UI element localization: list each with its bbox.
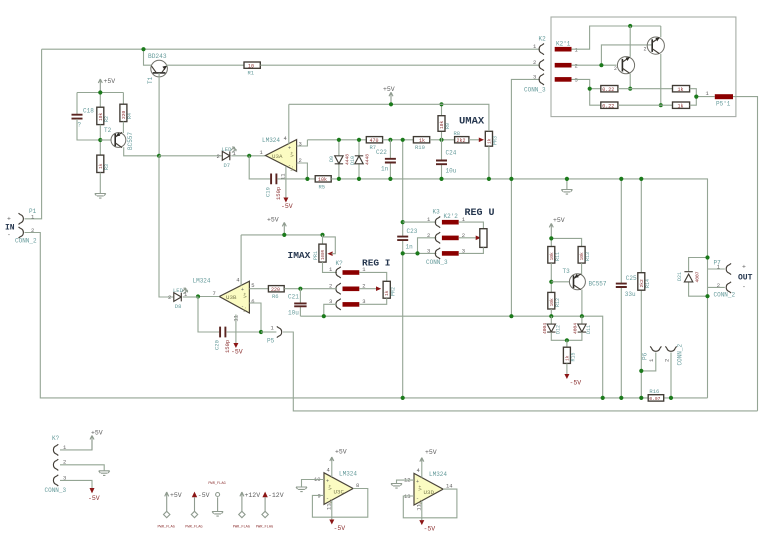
resistor 1k lower bbox=[673, 102, 690, 109]
wire contact2 to bases bbox=[572, 45, 652, 65]
svg-text:PR3: PR3 bbox=[493, 136, 499, 145]
wire R1 to K2 pin2 bbox=[260, 64, 540, 66]
junction dot T3 base node bbox=[549, 280, 553, 284]
svg-text:V-: V- bbox=[290, 166, 296, 171]
wire R6 to K? pin2 bbox=[284, 288, 337, 290]
svg-text:D12: D12 bbox=[556, 325, 562, 334]
svg-text:PR2: PR2 bbox=[390, 287, 396, 296]
svg-text:150p: 150p bbox=[224, 340, 231, 353]
svg-text:1k: 1k bbox=[384, 290, 390, 296]
power -5V (U3A) bbox=[281, 198, 293, 211]
svg-text:BD243: BD243 bbox=[148, 53, 167, 60]
wire pin6 node to P5 bbox=[261, 331, 276, 333]
svg-text:K2'1: K2'1 bbox=[556, 40, 571, 47]
svg-text:R11: R11 bbox=[555, 252, 561, 261]
resistor R8 bbox=[454, 130, 469, 144]
wire P5 to bottom line B bbox=[283, 332, 758, 411]
wire U3A pin2 to feedback rail bbox=[297, 163, 308, 179]
transistor T2 BC557 bbox=[111, 122, 159, 156]
svg-text:0.22: 0.22 bbox=[602, 103, 614, 109]
svg-text:LED: LED bbox=[173, 287, 184, 294]
junction dot +5V arrow (IMAX) bbox=[282, 233, 286, 237]
LED D7 bbox=[217, 146, 237, 169]
wire U3B pin11 to -5V bbox=[235, 315, 237, 344]
svg-text:+5V: +5V bbox=[104, 78, 116, 85]
power -5V (U3D) bbox=[419, 520, 435, 533]
junction dot +5V T3 bbox=[549, 236, 553, 240]
svg-text:-5V: -5V bbox=[570, 380, 582, 387]
wire U3B feedback down through C20 bbox=[198, 297, 219, 333]
svg-text:2: 2 bbox=[575, 63, 578, 70]
svg-text:+5V: +5V bbox=[553, 217, 565, 224]
svg-text:D7: D7 bbox=[224, 162, 231, 169]
transistor Q2 (relay box upper) bbox=[644, 26, 665, 105]
connector P7 pin1 bbox=[726, 263, 731, 274]
capacitor C25 bbox=[616, 275, 637, 298]
svg-text:P5'1: P5'1 bbox=[716, 101, 731, 108]
resistor R16 (on line A) bbox=[648, 388, 664, 402]
resistor R2 bbox=[97, 107, 110, 124]
wire shunts to 1k resistors bbox=[618, 89, 673, 106]
connector K2 pin1 bbox=[539, 44, 544, 55]
wire C25 vertical bbox=[620, 179, 622, 398]
wire R12 bottom to rail bbox=[550, 309, 552, 316]
diode D21 bbox=[677, 258, 707, 297]
wire C19 to R5 bbox=[277, 178, 315, 180]
svg-text:PR1: PR1 bbox=[313, 251, 319, 260]
junction dot top rail / T1 bbox=[141, 47, 145, 51]
junction dot x=402.7 top rail bbox=[401, 138, 405, 142]
svg-text:K2: K2 bbox=[539, 36, 547, 43]
potentiometer REG U bbox=[480, 229, 487, 248]
resistor R7 bbox=[366, 137, 382, 151]
svg-text:1k: 1k bbox=[486, 138, 492, 144]
junction dot +5V/R2 bbox=[98, 90, 102, 94]
svg-text:-5V: -5V bbox=[198, 492, 210, 499]
svg-text:1k: 1k bbox=[419, 138, 425, 144]
svg-text:-5V: -5V bbox=[334, 525, 346, 532]
op-amp U3C bbox=[324, 473, 353, 505]
svg-text:R13: R13 bbox=[585, 252, 591, 261]
potentiometer PR1 bbox=[313, 235, 337, 273]
svg-text:V-: V- bbox=[328, 499, 334, 504]
wire pin1 to +5V bbox=[60, 440, 92, 450]
svg-text:0.07: 0.07 bbox=[649, 396, 660, 402]
svg-text:CONN_3: CONN_3 bbox=[45, 487, 67, 494]
svg-text:R14: R14 bbox=[645, 279, 651, 288]
wire K? pin3 to pot bottom bbox=[359, 298, 386, 304]
power +5V (T2 bias) bbox=[98, 78, 115, 93]
junction dot T3 collector/rail bbox=[580, 314, 584, 318]
svg-text:4448: 4448 bbox=[364, 154, 370, 165]
svg-text:2: 2 bbox=[717, 282, 720, 289]
junction dot R9 top bbox=[439, 102, 443, 106]
wire C20 to pin6 node bbox=[226, 331, 261, 333]
wire R14 vertical bbox=[640, 179, 642, 398]
svg-text:PWR_FLAG: PWR_FLAG bbox=[185, 526, 202, 530]
svg-text:1k: 1k bbox=[678, 87, 684, 93]
wire K3 pin3 to pot bottom bbox=[459, 247, 484, 253]
svg-text:1k: 1k bbox=[678, 103, 684, 109]
svg-text:2: 2 bbox=[217, 153, 220, 160]
svg-text:+5V: +5V bbox=[425, 449, 437, 456]
svg-text:220: 220 bbox=[271, 287, 280, 293]
power +5V (U3A rail) bbox=[383, 86, 395, 104]
PWR_FLAG GND bbox=[208, 482, 225, 516]
svg-text:+: + bbox=[241, 287, 244, 293]
svg-text:LM324: LM324 bbox=[339, 471, 357, 478]
connector K? pin2 bbox=[336, 283, 341, 294]
svg-text:9: 9 bbox=[318, 493, 321, 500]
resistor R6 bbox=[268, 286, 284, 301]
svg-text:10: 10 bbox=[248, 63, 254, 69]
relay contact K?-1 bbox=[343, 270, 360, 275]
wire P6 pin2 down to line A bbox=[670, 353, 672, 398]
svg-text:5: 5 bbox=[251, 282, 254, 289]
wire pin2 to ground bbox=[60, 465, 104, 471]
connector K2 pin3 bbox=[539, 74, 544, 85]
capacitor C24 bbox=[436, 140, 457, 179]
wire base node to T2 bbox=[100, 139, 111, 141]
svg-text:-5V: -5V bbox=[424, 526, 436, 533]
svg-text:REG I: REG I bbox=[362, 258, 391, 269]
resistor R10 bbox=[413, 137, 429, 151]
power +5V (U3D) bbox=[420, 449, 437, 462]
svg-text:3: 3 bbox=[427, 247, 430, 254]
wire base node to T3 bbox=[551, 281, 570, 283]
svg-text:R8: R8 bbox=[454, 130, 461, 137]
svg-text:+: + bbox=[326, 478, 329, 484]
wire PR3 bottom to gnd rail bbox=[488, 146, 490, 179]
resistor R3 bbox=[97, 155, 110, 172]
junction dot PS1 node bbox=[694, 95, 698, 99]
svg-text:R16: R16 bbox=[649, 388, 659, 395]
relay contact K3-3 bbox=[442, 251, 459, 256]
connector K? pin1 bbox=[336, 267, 341, 278]
svg-text:R15: R15 bbox=[570, 352, 576, 361]
svg-text:470: 470 bbox=[370, 138, 379, 144]
svg-text:BC557: BC557 bbox=[589, 281, 607, 288]
svg-text:R12: R12 bbox=[555, 298, 561, 307]
relay contact K?-3 bbox=[343, 302, 360, 307]
power +5V (IMAX rail) bbox=[267, 217, 286, 235]
ground (U3C pin10) bbox=[296, 487, 307, 492]
LED D8 bbox=[168, 287, 188, 310]
resistor R9 bbox=[438, 104, 451, 140]
wire contact1 to top rail bbox=[572, 26, 661, 49]
junction dots line A bbox=[401, 396, 405, 400]
capacitor C22 bbox=[376, 140, 396, 179]
svg-text:-5V: -5V bbox=[231, 349, 243, 356]
svg-text:-: - bbox=[7, 232, 11, 239]
wire U3A pin11 to -5V bbox=[285, 166, 287, 197]
svg-text:PWR_FLAG: PWR_FLAG bbox=[233, 526, 250, 530]
wire +5V rail to C18 / R2 / R4 bbox=[77, 93, 123, 115]
relay contact K3-1 bbox=[442, 220, 459, 225]
svg-text:C22: C22 bbox=[376, 149, 387, 156]
wire feedback rail y=178.9 R5 to gnd corner bbox=[331, 179, 707, 398]
diode D12 bbox=[542, 316, 567, 340]
svg-text:D11: D11 bbox=[586, 325, 592, 334]
svg-text:C20: C20 bbox=[214, 340, 221, 350]
svg-text:R10: R10 bbox=[415, 144, 425, 151]
svg-text:OUT: OUT bbox=[738, 274, 753, 283]
svg-text:?: ? bbox=[78, 122, 82, 129]
wire to LED D7 bbox=[159, 155, 222, 157]
resistor 1k upper bbox=[673, 86, 690, 93]
connector P1 bbox=[19, 213, 24, 238]
svg-text:2: 2 bbox=[644, 47, 647, 53]
svg-text:2: 2 bbox=[427, 232, 430, 239]
svg-text:LM324: LM324 bbox=[429, 471, 447, 478]
svg-text:150p: 150p bbox=[275, 187, 282, 200]
svg-text:1n: 1n bbox=[406, 244, 414, 251]
junction dot R12/rail bbox=[549, 314, 553, 318]
svg-text:REG U: REG U bbox=[465, 208, 495, 219]
svg-text:1n: 1n bbox=[381, 166, 389, 173]
svg-text:-: - bbox=[742, 284, 746, 291]
wire mid rail y=139.8 (U3A pin3 net) bbox=[307, 139, 366, 141]
svg-text:0.22: 0.22 bbox=[602, 87, 614, 93]
svg-text:C18: C18 bbox=[83, 108, 94, 115]
svg-text:-5V: -5V bbox=[88, 495, 100, 502]
resistor R14 bbox=[638, 273, 651, 291]
svg-text:PWR_FLAG: PWR_FLAG bbox=[208, 482, 225, 486]
junction dot T1 base / T2 collector bbox=[157, 154, 161, 158]
svg-text:LM324: LM324 bbox=[193, 278, 211, 285]
transistor Q1 (relay box lower) bbox=[614, 26, 635, 89]
junction dot D11/D12/R15 bbox=[565, 338, 569, 342]
connector P7 pin2 bbox=[726, 282, 731, 293]
svg-text:+5V: +5V bbox=[383, 86, 395, 93]
svg-text:T2: T2 bbox=[104, 127, 112, 134]
wire K? pin2 to pot wiper bbox=[359, 288, 376, 290]
ground (U3D pin12) bbox=[391, 484, 402, 489]
potentiometer REG I (PR2) bbox=[383, 281, 396, 298]
capacitor C18 bbox=[72, 108, 101, 141]
svg-text:K?: K? bbox=[336, 260, 344, 267]
svg-text:C24: C24 bbox=[446, 150, 457, 157]
junction dot C22 top bbox=[388, 138, 392, 142]
wire T1 collector from top rail bbox=[144, 49, 153, 65]
wire P6 pin1 to R14 vertical bbox=[641, 353, 656, 371]
svg-text:4007: 4007 bbox=[694, 271, 700, 282]
svg-text:+: + bbox=[742, 264, 746, 271]
svg-text:R5: R5 bbox=[319, 183, 326, 190]
PWR_FLAG -5V bbox=[185, 492, 209, 530]
wire U3D pin4 to +5V bbox=[421, 458, 423, 478]
connector K3 pin1 bbox=[435, 217, 440, 228]
wire long vertical x=402.7 (UMAX net) bbox=[402, 140, 404, 398]
wire top rail from P1+ to K2 pin1 bbox=[42, 48, 540, 50]
wire R7 to R10 bbox=[383, 139, 414, 141]
junction dot C21 top bbox=[298, 287, 302, 291]
connector K? pin3 bbox=[336, 299, 341, 310]
svg-text:C19: C19 bbox=[265, 187, 272, 197]
junction dot pin6/C20/P5 bbox=[259, 330, 263, 334]
resistor R13 bbox=[578, 247, 591, 264]
svg-text:100R: 100R bbox=[322, 249, 326, 260]
capacitor C23 bbox=[397, 228, 418, 251]
op-amp U3B bbox=[219, 281, 249, 313]
svg-text:U3A: U3A bbox=[272, 153, 283, 160]
connector K3 pin3 bbox=[435, 248, 440, 259]
svg-text:R2: R2 bbox=[104, 116, 110, 122]
svg-text:13: 13 bbox=[404, 493, 411, 500]
wire gnd rail y=316.2 bbox=[300, 316, 602, 398]
wire T1-base vertical to LED D8 bbox=[159, 156, 173, 297]
wire R10 to R8 bbox=[430, 139, 455, 141]
wire U3C feedback loop bbox=[312, 489, 367, 518]
resistor R15 bbox=[563, 340, 576, 374]
svg-text:R9: R9 bbox=[445, 123, 451, 129]
capacitor C21 bbox=[288, 289, 307, 317]
wire K3 pin1 to pot REG U bbox=[459, 222, 484, 229]
ground (R3) bbox=[95, 194, 106, 199]
svg-text:2k2: 2k2 bbox=[457, 138, 466, 144]
svg-text:BC557: BC557 bbox=[127, 132, 134, 150]
svg-text:V-: V- bbox=[418, 499, 424, 504]
wire K? pin3 left down to gnd rail bbox=[324, 304, 337, 316]
wire U3D feedback loop bbox=[403, 489, 457, 518]
potentiometer PR3 bbox=[485, 131, 498, 146]
svg-text:CONN_3: CONN_3 bbox=[524, 87, 546, 94]
wire 1k outputs join bbox=[690, 89, 715, 106]
power -5V (bottom K?) bbox=[88, 488, 100, 502]
svg-text:+5V: +5V bbox=[170, 492, 182, 499]
resistor 0.22 upper bbox=[601, 86, 618, 93]
wire U3B output to LED D8 bbox=[198, 296, 219, 298]
wire LED D7 to U3A output bbox=[231, 155, 265, 157]
junction dot pin2 node bbox=[305, 177, 309, 181]
svg-text:R6: R6 bbox=[272, 293, 279, 300]
svg-text:R4: R4 bbox=[127, 113, 133, 119]
wire R11 bottom to R12/base bbox=[550, 263, 552, 292]
junction dot Q1 emitter/top rail bbox=[628, 24, 632, 28]
svg-text:D8: D8 bbox=[175, 303, 182, 310]
svg-text:CONN_3: CONN_3 bbox=[426, 259, 448, 266]
wire R13 bottom to T3 emitter bbox=[581, 263, 583, 275]
svg-text:CONN_2: CONN_2 bbox=[15, 238, 37, 245]
junction dot base node bbox=[599, 63, 603, 67]
wire K2 pin3 long vertical bbox=[511, 79, 540, 316]
junction dot shunt left bbox=[588, 87, 592, 91]
svg-text:6: 6 bbox=[251, 298, 254, 305]
transistor T1 BD243 bbox=[151, 60, 244, 156]
relay contact K?-2 bbox=[343, 287, 360, 292]
svg-text:-5V: -5V bbox=[281, 203, 293, 210]
junction dot Q1 collector bbox=[628, 87, 632, 91]
wire P7 pin1 bbox=[708, 268, 725, 270]
wire left border down to P1 pin1 bbox=[25, 49, 42, 219]
junction dot U3B output bbox=[196, 294, 200, 298]
junction dot T2 base node bbox=[98, 138, 102, 142]
diode D11 bbox=[567, 316, 592, 340]
connector K2 pin2 bbox=[539, 60, 544, 71]
wire K3 pin1 bbox=[403, 221, 437, 223]
svg-text:+12V: +12V bbox=[245, 492, 261, 499]
junction dot C24 bottom bbox=[439, 177, 443, 181]
wire +5V IMAX rail bbox=[241, 234, 322, 236]
wire K? pin1 to pot REG I top bbox=[359, 272, 386, 281]
junction dot PR3 bottom bbox=[487, 177, 491, 181]
svg-text:LM324: LM324 bbox=[262, 137, 280, 144]
wire LED D8 to U3B output node bbox=[183, 296, 198, 298]
wire R2 bottom to base node and R3 bbox=[99, 125, 101, 156]
svg-text:C23: C23 bbox=[407, 228, 418, 235]
svg-text:33u: 33u bbox=[625, 291, 636, 298]
svg-text:-12V: -12V bbox=[268, 492, 284, 499]
junction dot R9/C24 node bbox=[439, 138, 443, 142]
svg-text:T1: T1 bbox=[147, 76, 154, 84]
connector K? pin3 (bottom) bbox=[53, 475, 58, 486]
svg-text:+: + bbox=[288, 146, 291, 152]
junction dot C25 top rail bbox=[619, 177, 623, 181]
svg-text:IMAX: IMAX bbox=[288, 250, 311, 261]
svg-text:D10: D10 bbox=[350, 156, 356, 165]
svg-text:+5V: +5V bbox=[91, 430, 103, 437]
svg-text:U3C: U3C bbox=[334, 489, 345, 496]
relay pin P5'1 bbox=[715, 94, 733, 99]
svg-text:+5V: +5V bbox=[335, 449, 347, 456]
svg-text:R3: R3 bbox=[104, 164, 110, 170]
svg-text:+: + bbox=[416, 479, 419, 485]
svg-text:2: 2 bbox=[168, 294, 171, 301]
resistor R1 bbox=[244, 62, 260, 77]
resistor R5 bbox=[315, 176, 331, 191]
wire U3B pin5 to R6 bbox=[249, 288, 268, 290]
connector P6 pin1 bbox=[650, 346, 661, 351]
wire P1 pin2 down-left return (line A) bbox=[25, 233, 708, 398]
svg-text:CONN_2: CONN_2 bbox=[676, 343, 683, 365]
ground symbol (rail) bbox=[561, 190, 572, 195]
svg-text:CONN_2: CONN_2 bbox=[714, 292, 736, 299]
svg-text:V+: V+ bbox=[242, 292, 248, 298]
wire R3 to ground bbox=[99, 173, 101, 194]
power +5V (bottom K?) bbox=[90, 430, 103, 450]
wire U3D pin11 to -5V bbox=[421, 501, 423, 520]
junction dots D21 bbox=[705, 255, 709, 259]
svg-text:+5V: +5V bbox=[267, 217, 279, 224]
junction dot U3A output bbox=[247, 154, 251, 158]
svg-text:10k: 10k bbox=[318, 177, 327, 183]
transistor T3 BC557 bbox=[569, 274, 585, 317]
wire +5V to R11 and R13 bbox=[551, 238, 581, 246]
svg-text:K3: K3 bbox=[433, 209, 441, 216]
wire U3A pin3 to top mid rail bbox=[297, 140, 308, 146]
svg-text:LED: LED bbox=[222, 146, 233, 153]
PWR_FLAG +5V bbox=[158, 492, 182, 530]
connector K? pin2 (bottom) bbox=[53, 459, 58, 470]
junction dots D10 bbox=[357, 138, 361, 142]
svg-text:C21: C21 bbox=[288, 294, 299, 301]
op-amp U3D bbox=[414, 473, 443, 505]
svg-text:V-: V- bbox=[242, 307, 248, 312]
connector K? pin1 (bottom) bbox=[53, 444, 58, 455]
PWR_FLAG +12V bbox=[233, 492, 261, 530]
junction dot P6 pin1 bbox=[639, 369, 643, 373]
svg-text:3: 3 bbox=[533, 73, 536, 80]
svg-text:V+: V+ bbox=[290, 151, 296, 157]
svg-text:10u: 10u bbox=[446, 168, 457, 175]
ground (bottom K?) bbox=[99, 471, 110, 476]
wire U3B pin4 to +5V rail bbox=[240, 235, 242, 286]
PWR_FLAG -12V bbox=[256, 492, 284, 530]
connector P6 pin2 bbox=[665, 346, 676, 351]
wire contact3 down to shunts bbox=[572, 79, 601, 105]
svg-text:2: 2 bbox=[614, 66, 617, 72]
relay contact K3-2 bbox=[442, 236, 459, 241]
